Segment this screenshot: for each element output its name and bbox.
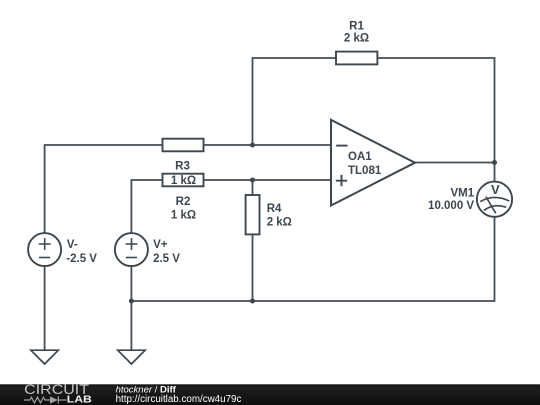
svg-text:10.000 V: 10.000 V — [428, 200, 474, 212]
svg-text:R3: R3 — [175, 161, 190, 173]
svg-text:1 kΩ: 1 kΩ — [171, 210, 196, 222]
svg-text:TL081: TL081 — [348, 165, 382, 177]
svg-text:2 kΩ: 2 kΩ — [344, 33, 369, 45]
svg-text:V: V — [491, 182, 500, 197]
svg-text:R2: R2 — [176, 196, 191, 208]
svg-text:V+: V+ — [153, 239, 168, 251]
svg-text:V-: V- — [67, 239, 78, 251]
svg-text:LAB: LAB — [67, 395, 92, 405]
svg-text:2 kΩ: 2 kΩ — [267, 217, 292, 229]
svg-text:-2.5 V: -2.5 V — [66, 253, 97, 265]
svg-text:VM1: VM1 — [450, 187, 474, 199]
svg-text:1 kΩ: 1 kΩ — [171, 175, 196, 187]
svg-text:2.5 V: 2.5 V — [153, 253, 180, 265]
svg-text:http://circuitlab.com/cw4u79c: http://circuitlab.com/cw4u79c — [116, 394, 242, 405]
svg-text:R1: R1 — [349, 21, 364, 33]
svg-text:R4: R4 — [267, 203, 282, 215]
svg-text:OA1: OA1 — [348, 151, 372, 163]
